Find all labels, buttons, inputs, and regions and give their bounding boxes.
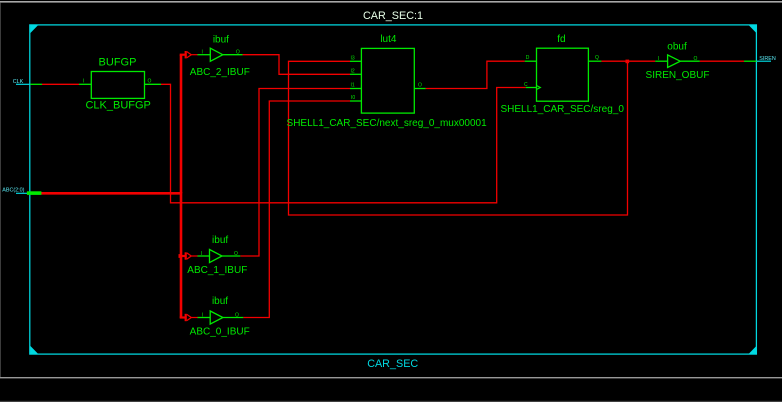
svg-text:ABC_0_IBUF: ABC_0_IBUF (190, 327, 250, 338)
svg-text:CAR_SEC: CAR_SEC (367, 358, 418, 370)
svg-text:O: O (694, 56, 698, 62)
svg-text:O: O (234, 251, 238, 257)
svg-text:SIREN_OBUF: SIREN_OBUF (646, 70, 710, 81)
svg-text:ibuf: ibuf (212, 235, 228, 246)
svg-text:I: I (83, 78, 84, 84)
svg-text:I: I (202, 313, 203, 319)
svg-text:I: I (201, 251, 202, 257)
svg-text:SHELL1_CAR_SEC/sreg_0: SHELL1_CAR_SEC/sreg_0 (500, 104, 624, 115)
svg-text:CAR_SEC:1: CAR_SEC:1 (363, 10, 423, 22)
svg-text:I0: I0 (351, 95, 355, 101)
svg-text:O: O (236, 50, 240, 56)
svg-text:O: O (148, 78, 152, 84)
svg-text:lut4: lut4 (380, 34, 397, 45)
svg-text:I2: I2 (351, 68, 355, 74)
svg-text:CLK: CLK (13, 79, 24, 85)
svg-text:I3: I3 (351, 55, 355, 61)
svg-text:ibuf: ibuf (212, 296, 228, 307)
svg-text:Q: Q (595, 55, 599, 61)
svg-text:I1: I1 (351, 82, 355, 88)
svg-text:ABC_1_IBUF: ABC_1_IBUF (187, 265, 247, 276)
svg-text:O: O (418, 83, 422, 89)
svg-text:ABC(2:0): ABC(2:0) (2, 188, 24, 194)
svg-text:ABC_2_IBUF: ABC_2_IBUF (190, 67, 250, 78)
svg-text:O: O (235, 313, 239, 319)
svg-text:ibuf: ibuf (213, 34, 229, 45)
svg-text:SHELL1_CAR_SEC/next_sreg_0_mux: SHELL1_CAR_SEC/next_sreg_0_mux00001 (287, 118, 488, 129)
svg-text:D: D (526, 55, 530, 61)
svg-text:CLK_BUFGP: CLK_BUFGP (85, 100, 150, 112)
svg-text:SIREN: SIREN (759, 56, 776, 62)
svg-text:I: I (202, 50, 203, 56)
svg-text:obuf: obuf (667, 42, 687, 53)
svg-text:I: I (658, 56, 659, 62)
svg-text:C: C (524, 82, 528, 88)
svg-text:fd: fd (557, 34, 565, 45)
svg-text:BUFGP: BUFGP (99, 57, 137, 69)
